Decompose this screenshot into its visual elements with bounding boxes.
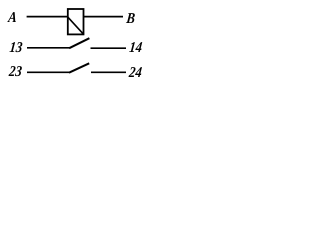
- wire 14 right: [91, 47, 127, 49]
- wire 23 left: [27, 71, 70, 73]
- contact blade 23-24: [69, 63, 89, 72]
- terminal 14: [128, 40, 142, 56]
- svg-text:13: 13: [9, 40, 23, 56]
- svg-text:A: A: [7, 10, 18, 26]
- wire 13 left: [27, 47, 70, 49]
- node B: [125, 11, 136, 27]
- wire A to coil: [27, 16, 68, 18]
- wire coil to B: [84, 16, 123, 18]
- terminal 13: [9, 40, 23, 56]
- svg-text:B: B: [125, 11, 136, 27]
- svg-text:14: 14: [128, 40, 142, 56]
- svg-text:24: 24: [127, 65, 142, 81]
- terminal 23: [7, 64, 22, 80]
- svg-text:23: 23: [7, 64, 22, 80]
- node A: [7, 10, 18, 26]
- coil diagonal: [68, 17, 84, 34]
- relay coil box: [68, 9, 84, 34]
- wire 24 right: [91, 71, 126, 73]
- terminal 24: [127, 65, 142, 81]
- contact blade 13-14: [69, 38, 89, 48]
